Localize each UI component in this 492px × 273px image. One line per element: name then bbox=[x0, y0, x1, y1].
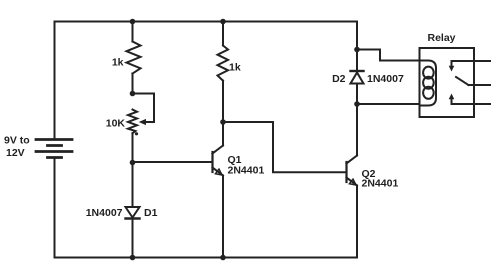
relay NC contact with arrow bbox=[449, 61, 490, 72]
wire D2 to cathode junction bbox=[356, 84, 358, 105]
resistor R1 1k bbox=[127, 42, 141, 74]
wire collector junction to Q2 base bbox=[223, 122, 346, 172]
svg-text:1k: 1k bbox=[229, 62, 241, 74]
svg-text:D1: D1 bbox=[144, 207, 158, 219]
transistor Q1 2N4401 bbox=[213, 122, 224, 176]
wire R2 to collector junction bbox=[222, 81, 224, 122]
svg-text:1N4007: 1N4007 bbox=[367, 73, 404, 85]
label battery voltage 9V to 12V bbox=[4, 135, 30, 160]
wire pot to base junction bbox=[132, 133, 134, 162]
node bottom rail column 1 bbox=[130, 255, 136, 261]
wire Q1 emitter to bottom rail bbox=[222, 176, 224, 258]
wire top rail to R1 bbox=[132, 22, 134, 42]
relay common blade bbox=[456, 77, 490, 85]
diode D2 1N4007 bbox=[351, 71, 364, 84]
node D2 anode junction bbox=[354, 47, 360, 53]
wire junction to D2 bbox=[356, 50, 358, 72]
wire top rail to R2 bbox=[222, 22, 224, 46]
svg-text:Relay: Relay bbox=[427, 32, 455, 44]
wire junction to relay coil bottom bbox=[357, 103, 420, 105]
node pot top junction bbox=[130, 91, 136, 97]
svg-text:12V: 12V bbox=[6, 147, 25, 159]
wiper arrowhead bbox=[139, 119, 146, 125]
wire left rail lower bbox=[54, 158, 56, 258]
node junction top of column 1 bbox=[130, 19, 136, 25]
node bottom rail column 2 bbox=[220, 255, 226, 261]
wire left rail upper bbox=[54, 22, 56, 140]
pot terminal dot bbox=[135, 132, 138, 135]
wire D1 to bottom rail bbox=[132, 219, 134, 258]
transistor Q2 2N4401 bbox=[347, 156, 358, 186]
battery B1 9V-12V bbox=[36, 140, 72, 158]
node base junction column 1 bbox=[130, 160, 136, 166]
svg-text:1k: 1k bbox=[112, 57, 124, 69]
svg-text:2N4401: 2N4401 bbox=[362, 178, 399, 190]
wire Q2 emitter to bottom rail bbox=[356, 186, 358, 258]
wire to Q1 base bbox=[133, 161, 213, 163]
diode D1 1N4007 bbox=[126, 207, 140, 219]
svg-text:10K: 10K bbox=[106, 118, 126, 130]
node Q1 collector junction bbox=[220, 119, 226, 125]
wire R1 to pot junction bbox=[132, 74, 134, 94]
node D2 cathode junction bbox=[354, 101, 360, 107]
svg-text:1N4007: 1N4007 bbox=[86, 207, 123, 219]
wire junction to D1 bbox=[132, 163, 134, 208]
wire top rail corner down to D2 bbox=[356, 22, 358, 50]
node junction top of column 2 bbox=[220, 19, 226, 25]
svg-text:D2: D2 bbox=[332, 73, 346, 85]
svg-text:9V to: 9V to bbox=[4, 135, 30, 147]
wire wiper jog bbox=[133, 94, 155, 123]
relay NO contact with arrow bbox=[449, 94, 490, 105]
resistor R2 1k bbox=[218, 46, 229, 81]
relay K1 outline box bbox=[420, 48, 475, 117]
wire bottom rail bbox=[55, 257, 358, 259]
relay coil bbox=[420, 61, 437, 106]
wire top rail bbox=[55, 21, 358, 23]
potentiometer VR1 10K bbox=[128, 110, 137, 134]
wire junction to Q2 collector bbox=[356, 104, 358, 156]
wire junction to relay coil top bbox=[357, 50, 420, 61]
svg-text:2N4401: 2N4401 bbox=[228, 165, 265, 177]
